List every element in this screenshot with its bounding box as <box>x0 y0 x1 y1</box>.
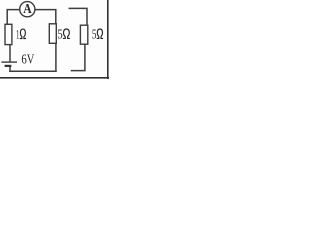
svg-text:A: A <box>23 2 32 17</box>
wire below battery to bottom wire <box>9 67 11 72</box>
wire below left resistor to battery <box>9 45 11 62</box>
table cell border bottom <box>0 77 109 79</box>
resistor R3 box <box>80 25 87 44</box>
resistor R1 box <box>5 24 12 44</box>
table cell border right <box>107 0 109 79</box>
background <box>0 0 109 79</box>
battery short plate <box>5 65 12 67</box>
svg-text:5: 5 <box>57 27 62 42</box>
wire right branch top stub <box>69 8 87 25</box>
svg-text:V: V <box>27 52 35 67</box>
resistor R2 box <box>49 24 56 44</box>
svg-text:1: 1 <box>16 27 19 42</box>
wire top-left corner and left vertical <box>7 10 20 25</box>
ammeter A1 circle <box>20 2 35 17</box>
wire middle branch lower <box>55 43 57 71</box>
battery long plate <box>1 61 17 63</box>
wire bottom of left loop <box>10 70 56 72</box>
wire right branch bottom stub <box>72 44 85 70</box>
svg-text:5: 5 <box>92 27 97 42</box>
wire top right from ammeter to middle branch corner <box>35 10 56 24</box>
